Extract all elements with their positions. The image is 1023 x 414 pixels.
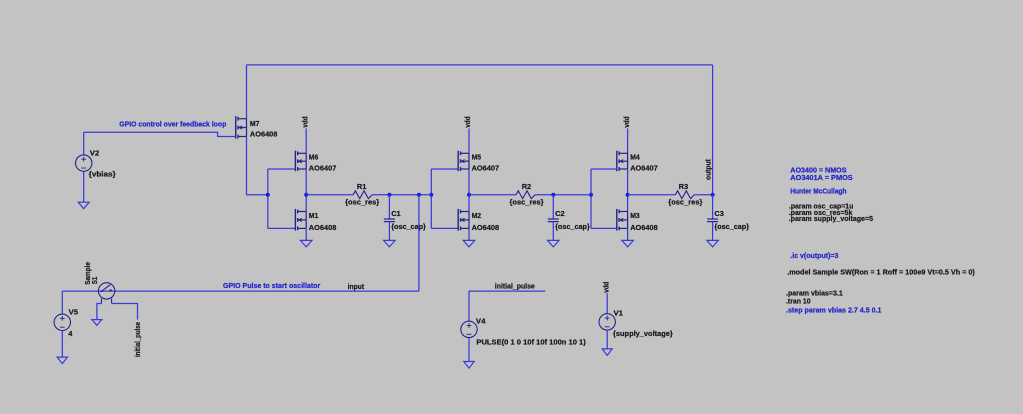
wire M4 drain to M3 drain xyxy=(627,169,629,212)
wire C3 bottom lead xyxy=(712,222,714,241)
wire V5 bottom lead xyxy=(61,331,63,358)
wire vdd to M5 source xyxy=(468,128,470,153)
ground below V5 xyxy=(57,357,67,364)
wire C1 top lead xyxy=(388,195,390,219)
svg-text:vdd: vdd xyxy=(602,281,611,293)
svg-text:{vbias}: {vbias} xyxy=(89,169,116,178)
svg-text:{osc_res}: {osc_res} xyxy=(668,197,702,206)
wire V2 top lead xyxy=(83,132,85,155)
wire top feedback loop xyxy=(247,64,713,66)
wire stage3 output to R3 xyxy=(628,194,676,196)
wire M5 drain to M2 drain xyxy=(468,169,470,212)
wire gate column stage 2 xyxy=(430,169,432,228)
wire S1 control minus to ground xyxy=(97,304,102,320)
capacitor C1 xyxy=(384,219,395,222)
svg-text:AO3401A = PMOS: AO3401A = PMOS xyxy=(790,173,852,182)
resistor R1 xyxy=(353,191,372,199)
ground below C1 xyxy=(384,240,396,247)
wire vdd to M6 source xyxy=(305,128,307,153)
wire gate column stage 1 xyxy=(267,169,269,228)
svg-text:V5: V5 xyxy=(69,308,79,317)
voltage source V5 xyxy=(54,314,70,330)
svg-text:.model Sample SW(Ron = 1 Roff: .model Sample SW(Ron = 1 Roff = 100e9 Vt… xyxy=(787,267,975,276)
wire output column vertical xyxy=(712,65,714,195)
svg-text:{supply_voltage}: {supply_voltage} xyxy=(613,329,673,338)
ground below V2 xyxy=(78,202,89,209)
svg-text:vdd: vdd xyxy=(463,116,472,128)
svg-text:input: input xyxy=(348,282,365,291)
wire C1 bottom lead xyxy=(388,222,390,241)
transistor M1 NMOS xyxy=(295,209,306,231)
svg-text:AO6408: AO6408 xyxy=(630,223,658,232)
svg-text:C2: C2 xyxy=(555,209,565,218)
svg-text:vdd: vdd xyxy=(300,116,309,128)
wire V1 bottom lead xyxy=(606,330,608,349)
svg-text:initial_pulse: initial_pulse xyxy=(495,282,535,291)
svg-text:Hunter McCullagh: Hunter McCullagh xyxy=(790,186,847,195)
svg-text:V1: V1 xyxy=(614,309,624,318)
voltage source V1 xyxy=(599,314,615,330)
junction drain node stage 1 xyxy=(304,193,308,197)
ground below C2 xyxy=(548,240,560,247)
wire V5 top lead xyxy=(61,291,63,314)
wire M7 drain from feedback loop xyxy=(246,65,248,119)
svg-text:V2: V2 xyxy=(90,148,100,157)
svg-text:AO6407: AO6407 xyxy=(309,163,337,172)
svg-text:C3: C3 xyxy=(714,209,724,218)
svg-text:.param supply_voltage=5: .param supply_voltage=5 xyxy=(789,214,873,223)
svg-text:{osc_cap}: {osc_cap} xyxy=(714,222,749,231)
wire R2 to stage3 gates xyxy=(535,194,591,196)
wire M3 gate lead xyxy=(591,227,617,229)
svg-text:4: 4 xyxy=(68,329,73,338)
wire vdd to M4 source xyxy=(627,128,629,153)
wire M6 drain to M1 drain xyxy=(305,169,307,212)
wire stage2 output to R2 xyxy=(469,194,516,196)
svg-text:M7: M7 xyxy=(250,119,260,128)
wire V4 top lead xyxy=(468,291,470,321)
resistor R2 xyxy=(516,191,535,199)
transistor M3 NMOS xyxy=(617,209,628,231)
ground below M2 xyxy=(463,240,475,247)
wire M2 gate lead xyxy=(431,227,458,229)
wire M3 source to ground xyxy=(627,228,629,240)
transistor M7 xyxy=(236,116,247,139)
junction gate column stage 3 xyxy=(589,193,593,197)
wire gate column stage 3 xyxy=(590,169,592,228)
svg-text:R2: R2 xyxy=(522,182,532,191)
wire M1 gate lead xyxy=(268,227,296,229)
svg-text:M1: M1 xyxy=(309,211,319,220)
svg-text:AO6408: AO6408 xyxy=(250,129,278,138)
svg-text:AO6408: AO6408 xyxy=(309,223,337,232)
junction input tap node xyxy=(417,193,421,197)
transistor M2 NMOS xyxy=(458,209,469,231)
ground below V4 xyxy=(464,362,474,369)
voltage source V2 xyxy=(76,155,92,171)
wire M1 source to ground xyxy=(305,228,307,240)
junction C1 node xyxy=(387,193,391,197)
svg-text:GPIO control over feedback loo: GPIO control over feedback loop xyxy=(119,120,226,129)
wire C2 bottom lead xyxy=(552,222,554,241)
svg-text:AO6407: AO6407 xyxy=(630,163,658,172)
transistor M5 PMOS xyxy=(458,151,469,172)
svg-text:C1: C1 xyxy=(391,209,401,218)
svg-text:S1: S1 xyxy=(90,277,99,285)
ground S1 control xyxy=(92,320,102,326)
svg-text:R3: R3 xyxy=(679,182,689,191)
wire M6 gate lead xyxy=(268,168,296,170)
capacitor C3 xyxy=(707,219,718,222)
junction C2 node xyxy=(551,193,555,197)
wire R3 to output node xyxy=(694,194,712,196)
junction gate column stage 1 xyxy=(266,193,270,197)
ground below C3 xyxy=(707,240,719,247)
ground below M3 xyxy=(622,240,634,247)
svg-text:{osc_cap}: {osc_cap} xyxy=(555,222,590,231)
svg-text:M2: M2 xyxy=(472,211,482,220)
svg-text:{osc_cap}: {osc_cap} xyxy=(391,222,426,231)
wire initial_pulse net segment xyxy=(469,290,545,292)
svg-text:GPIO Pulse to start oscillator: GPIO Pulse to start oscillator xyxy=(223,281,320,290)
wire V2 to M7 gate xyxy=(84,132,236,136)
svg-text:PULSE(0 1 0 10f 10f 100n 10 1): PULSE(0 1 0 10f 10f 100n 10 1) xyxy=(476,338,586,347)
junction drain node stage 3 xyxy=(626,193,630,197)
svg-text:M5: M5 xyxy=(472,153,482,162)
voltage source V4 xyxy=(461,321,477,337)
wire C2 top lead xyxy=(552,195,554,219)
wire input column from C1 node down xyxy=(418,195,420,291)
junction gate column stage 2 xyxy=(429,193,433,197)
svg-text:initial_pulse: initial_pulse xyxy=(133,322,142,357)
wire M7 source down to stage1 gate node xyxy=(247,137,268,195)
svg-text:M3: M3 xyxy=(630,211,640,220)
switch S1 xyxy=(98,283,114,304)
svg-text:M6: M6 xyxy=(309,153,319,162)
wire V2 bottom lead xyxy=(83,171,85,202)
wire V4 bottom lead xyxy=(468,338,470,362)
svg-text:.tran 10: .tran 10 xyxy=(786,297,811,306)
wire V1 top lead xyxy=(606,293,608,314)
wire stage1 output to R1 xyxy=(306,194,353,196)
junction drain node stage 2 xyxy=(467,193,471,197)
svg-text:.ic v(output)=3: .ic v(output)=3 xyxy=(790,251,838,260)
wire M2 source to ground xyxy=(468,228,470,240)
wire R1 to stage2 gates xyxy=(372,194,431,196)
svg-text:vdd: vdd xyxy=(622,116,631,128)
wire bottom bus S1 to input column xyxy=(62,290,419,292)
svg-text:{osc_res}: {osc_res} xyxy=(510,197,544,206)
ground below M1 xyxy=(300,240,312,247)
capacitor C2 xyxy=(548,219,559,222)
wire S1 control plus to initial_pulse xyxy=(112,304,138,320)
transistor M6 PMOS xyxy=(295,151,306,172)
svg-text:AO6408: AO6408 xyxy=(472,223,500,232)
svg-text:AO6407: AO6407 xyxy=(472,163,500,172)
svg-text:V4: V4 xyxy=(476,317,486,326)
wire M5 gate lead xyxy=(431,168,458,170)
junction output node xyxy=(711,193,715,197)
svg-text:output: output xyxy=(704,159,713,180)
wire M4 gate lead xyxy=(591,168,617,170)
svg-text:{osc_res}: {osc_res} xyxy=(345,197,379,206)
svg-text:.step param vbias 2.7 4.5 0.1: .step param vbias 2.7 4.5 0.1 xyxy=(786,306,882,315)
resistor R3 xyxy=(675,191,694,199)
svg-text:M4: M4 xyxy=(630,153,640,162)
svg-text:R1: R1 xyxy=(357,182,367,191)
transistor M4 PMOS xyxy=(617,151,628,172)
ground below V1 xyxy=(602,349,612,356)
wire C3 top lead xyxy=(712,195,714,219)
